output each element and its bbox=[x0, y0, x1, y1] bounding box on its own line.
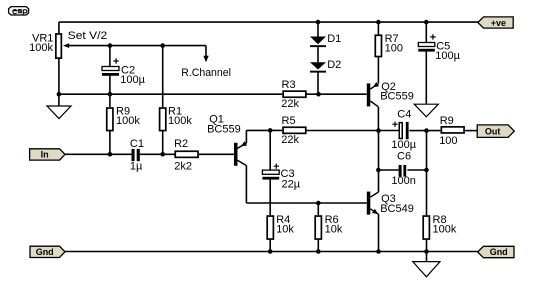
wire R7 top bbox=[377, 22, 379, 34]
svg-text:22k: 22k bbox=[281, 134, 299, 146]
wire Q1 emitter to R5 bbox=[246, 129, 282, 131]
wire R.Channel drop bbox=[205, 46, 207, 57]
svg-text:BC559: BC559 bbox=[380, 91, 414, 103]
svg-text:22µ: 22µ bbox=[282, 178, 301, 190]
wire C1 to R2 bbox=[140, 153, 175, 155]
wire VR1 top bbox=[58, 22, 60, 33]
resistor R6 bbox=[315, 216, 321, 239]
label C3 bbox=[281, 168, 301, 190]
svg-text:100: 100 bbox=[439, 135, 457, 147]
diode D2 bbox=[310, 62, 326, 72]
svg-text:1µ: 1µ bbox=[130, 161, 143, 173]
wire C4 to C6 right bbox=[426, 131, 428, 170]
wire Q2 collector bbox=[377, 107, 379, 131]
resistor R3 bbox=[283, 91, 306, 97]
label Q3 bbox=[380, 193, 414, 215]
svg-text:100n: 100n bbox=[391, 175, 415, 187]
svg-text:22k: 22k bbox=[281, 98, 299, 110]
svg-text:R2: R2 bbox=[174, 138, 188, 150]
wire C4 to Out bbox=[409, 130, 440, 132]
label R8 bbox=[433, 214, 457, 236]
svg-text:D1: D1 bbox=[327, 33, 341, 45]
svg-text:D2: D2 bbox=[327, 59, 341, 71]
wire Q1 emitter riser bbox=[245, 130, 247, 143]
wire C5 to ground bbox=[425, 51, 427, 104]
svg-text:R5: R5 bbox=[282, 115, 296, 127]
svg-text:In: In bbox=[41, 150, 49, 160]
label R4 bbox=[276, 214, 294, 236]
svg-text:10k: 10k bbox=[325, 224, 343, 236]
resistor R9 (input) bbox=[107, 108, 113, 131]
wire VR1 ground stub bbox=[58, 94, 60, 106]
svg-text:R9: R9 bbox=[440, 115, 454, 127]
svg-text:BC549: BC549 bbox=[380, 203, 414, 215]
svg-text:100k: 100k bbox=[168, 115, 192, 127]
svg-text:Set V/2: Set V/2 bbox=[68, 30, 108, 42]
label R9 bbox=[116, 105, 140, 126]
svg-text:100µ: 100µ bbox=[120, 74, 145, 86]
wire R9 to Out tag bbox=[465, 130, 478, 132]
wire C2 top bbox=[109, 46, 111, 67]
wire ground stub bottom right bbox=[426, 252, 428, 262]
resistor R8 bbox=[423, 216, 429, 239]
svg-text:Out: Out bbox=[485, 126, 501, 136]
wire C6 right bbox=[407, 169, 426, 171]
esp logo bbox=[9, 7, 29, 15]
resistor R2 bbox=[175, 151, 198, 157]
label VR1 bbox=[29, 33, 53, 55]
wire C3 to R4 bbox=[269, 180, 271, 216]
svg-text:C4: C4 bbox=[397, 109, 411, 121]
capacitor C5 bbox=[418, 34, 435, 51]
label C2 bbox=[120, 65, 145, 86]
wire R2 to Q1 base bbox=[199, 153, 234, 155]
wire D1 to D2 bbox=[317, 47, 319, 62]
resistor R7 bbox=[375, 35, 381, 56]
wire R1 top bbox=[162, 46, 164, 107]
svg-text:Gnd: Gnd bbox=[36, 247, 54, 257]
wire VR1 bottom bbox=[58, 59, 60, 94]
label R3 bbox=[281, 79, 299, 110]
svg-text:C6: C6 bbox=[397, 150, 411, 162]
label R7 bbox=[385, 33, 403, 55]
capacitor C4 bbox=[392, 122, 408, 140]
svg-text:Gnd: Gnd bbox=[490, 247, 508, 257]
wire R8 bottom bbox=[426, 240, 428, 252]
tag +ve bbox=[478, 17, 513, 28]
svg-text:100µ: 100µ bbox=[391, 139, 416, 151]
wire ground rail bbox=[65, 251, 478, 253]
wire D2 bottom bbox=[317, 73, 319, 95]
wire R3 to Q2 base bbox=[307, 93, 367, 95]
label C6 bbox=[391, 150, 415, 187]
svg-text:10k: 10k bbox=[276, 224, 294, 236]
transistor Q2 bbox=[367, 82, 379, 107]
ground at VR1 bbox=[47, 106, 71, 119]
wire In to C1 bbox=[65, 153, 132, 155]
label Q2 bbox=[380, 81, 414, 103]
capacitor C2 bbox=[102, 58, 119, 76]
wire R4 bottom bbox=[269, 240, 271, 252]
label Q1 bbox=[207, 113, 241, 135]
wire Q1 collector drop bbox=[245, 166, 247, 203]
wire R6 bottom bbox=[317, 240, 319, 252]
wire +ve rail bbox=[59, 21, 478, 23]
svg-text:100: 100 bbox=[385, 43, 403, 55]
svg-text:BC559: BC559 bbox=[207, 123, 241, 135]
transistor Q1 bbox=[234, 141, 247, 166]
label R5 bbox=[281, 115, 299, 146]
svg-text:C1: C1 bbox=[130, 138, 144, 150]
wire Q3 collector riser bbox=[378, 131, 380, 192]
wire R7 to Q2 emitter bbox=[377, 57, 379, 83]
svg-text:100µ: 100µ bbox=[435, 50, 460, 62]
ground at C5 bbox=[414, 104, 438, 117]
svg-text:R.Channel: R.Channel bbox=[181, 67, 231, 79]
capacitor C3 bbox=[262, 164, 279, 180]
label R6 bbox=[325, 214, 343, 236]
label C5 bbox=[435, 40, 460, 62]
tag Gnd right bbox=[478, 246, 514, 257]
svg-text:100k: 100k bbox=[433, 224, 457, 236]
capacitor C6 bbox=[399, 165, 407, 177]
resistor R5 bbox=[283, 127, 306, 133]
tag Gnd left bbox=[30, 246, 65, 257]
resistor R4 bbox=[267, 216, 273, 239]
capacitor C1 bbox=[132, 149, 140, 161]
wire C6 left bbox=[378, 169, 398, 171]
wire Q3 emitter drop bbox=[378, 214, 380, 251]
wire C2 bottom bbox=[109, 76, 111, 95]
label C4 bbox=[391, 109, 416, 152]
diode D1 bbox=[310, 37, 326, 48]
wire C3 top bbox=[269, 130, 271, 170]
label C1 bbox=[130, 138, 144, 173]
label R1 bbox=[168, 105, 192, 126]
svg-text:2k2: 2k2 bbox=[174, 161, 192, 173]
ground bottom right bbox=[413, 262, 440, 277]
arrow R.Channel bbox=[203, 56, 208, 62]
svg-text:100k: 100k bbox=[29, 42, 53, 54]
wire VR1 wiper line bbox=[68, 45, 207, 47]
wire ground bus left bbox=[59, 93, 282, 95]
wire C6 to R8 bbox=[426, 170, 428, 215]
svg-text:100k: 100k bbox=[116, 115, 140, 127]
label R2 bbox=[174, 138, 192, 172]
wire Q1 collector to Q3 base bbox=[246, 202, 366, 204]
wire R9 top bbox=[109, 94, 111, 107]
resistor R1 bbox=[160, 108, 166, 131]
transistor Q3 bbox=[367, 192, 379, 215]
tag In bbox=[30, 149, 65, 160]
svg-text:+ve: +ve bbox=[491, 18, 506, 28]
wire R5 to C4 bbox=[306, 130, 398, 132]
potentiometer VR1 bbox=[56, 34, 69, 58]
svg-text:R3: R3 bbox=[282, 79, 296, 91]
wire D1 top bbox=[317, 22, 319, 36]
wire C5 top bbox=[425, 22, 427, 42]
wire R1 bottom bbox=[162, 131, 164, 155]
wire R9 bottom bbox=[109, 131, 111, 155]
label R9 output bbox=[439, 115, 457, 147]
resistor R9 (output) bbox=[441, 127, 464, 133]
wire R6 top bbox=[317, 203, 319, 215]
tag Out bbox=[477, 125, 514, 137]
